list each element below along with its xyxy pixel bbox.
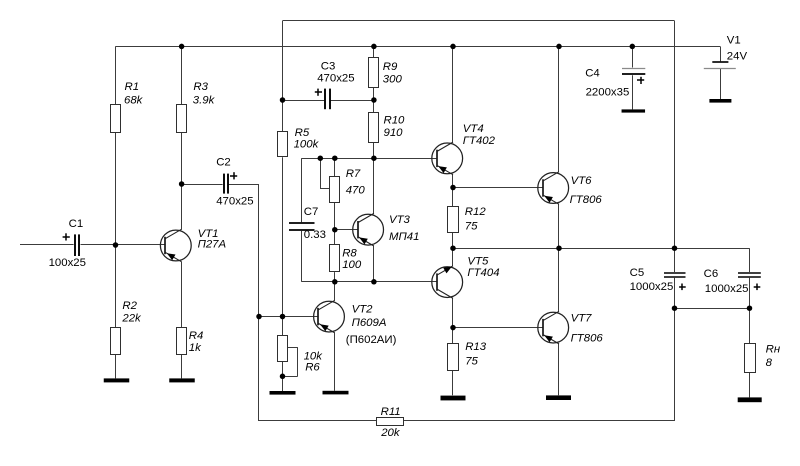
label VT2 P609A: [352, 303, 387, 329]
label VT3 MP41: [389, 214, 419, 243]
junction C5 bottom: [672, 305, 678, 311]
wire R12 bottom to output node: [452, 233, 454, 249]
wire C4 to ground: [632, 75, 634, 109]
polarity + C2: [230, 172, 237, 179]
label C1 100x25: [49, 218, 86, 269]
transistor VT2 P609A: [314, 282, 345, 391]
wire feedback loop left segment: [259, 420, 377, 422]
wire VT2 base wire down to R6: [282, 317, 284, 336]
ground under R6: [270, 391, 296, 395]
wire R6 wiper tap: [283, 347, 298, 376]
wire driver node rail C7-to-VT4 base: [302, 158, 437, 160]
wire C2 corner down to VT2 base node: [258, 184, 260, 317]
junction R8/VT2 collector: [332, 279, 338, 285]
wire R5 bottom to VT2 base wire: [282, 157, 284, 316]
label VT1 P27A: [198, 228, 227, 251]
wire C1 to VT1 base: [81, 244, 166, 246]
wire C7 bottom lead: [301, 231, 303, 282]
capacitor C1: [75, 234, 79, 256]
label R13 75: [465, 341, 487, 368]
wire rail to VT4 collector: [452, 46, 454, 142]
svg-text:(П602АИ): (П602АИ): [346, 334, 397, 346]
junction C3 node right: [371, 97, 377, 103]
svg-text:R2: R2: [122, 300, 137, 312]
svg-text:VT3: VT3: [389, 214, 411, 226]
label R11 20k: [380, 406, 401, 439]
label C7 0.33: [304, 206, 326, 241]
junction C2 node: [179, 181, 185, 187]
label R10 910: [384, 115, 406, 139]
resistor R5: [278, 132, 288, 157]
polarity + C5: [679, 284, 686, 291]
wire bootstrap top edge: [283, 20, 675, 22]
wire VT1 emitter to R4: [181, 262, 183, 327]
polarity + C1: [63, 233, 70, 240]
resistor R8: [330, 245, 340, 272]
junction input node: [113, 242, 119, 248]
battery V1 negative bar: [709, 99, 731, 103]
svg-text:C4: C4: [585, 67, 600, 79]
wire driver rail to R7: [334, 158, 336, 177]
junction R7 wiper top: [318, 155, 324, 161]
junction R10/VT3 collector: [371, 155, 377, 161]
junction C3 node left: [280, 97, 286, 103]
svg-text:75: 75: [465, 356, 478, 368]
svg-text:C3: C3: [321, 61, 336, 73]
wire C2 node to C2 left plate: [182, 184, 223, 186]
junction VT3 emitter: [371, 279, 377, 285]
svg-text:C2: C2: [216, 156, 231, 168]
wire C5 bottom to C6 bottom: [675, 308, 750, 310]
svg-text:1000x25: 1000x25: [705, 283, 749, 295]
wire feedback loop right segment: [404, 420, 675, 422]
wire VT3 emitter to emitter wire: [373, 246, 375, 282]
junction rail/VT6 collector: [556, 44, 562, 50]
svg-text:100k: 100k: [294, 139, 320, 151]
label VT6 GT806: [570, 175, 603, 206]
svg-text:C6: C6: [704, 268, 719, 280]
wire R4 bottom to ground: [181, 355, 183, 379]
junction node A VT4 emitter: [450, 185, 456, 191]
wire C5 to lower node: [674, 278, 676, 308]
wire input node down to R2: [115, 245, 117, 327]
svg-text:R10: R10: [384, 115, 406, 127]
polarity + C4: [637, 77, 644, 84]
junction output at C5: [672, 245, 678, 251]
wire lower node down to feedback loop: [674, 308, 676, 421]
wire C3 right plate to R9/R10 node: [331, 100, 374, 102]
resistor R2: [111, 328, 121, 355]
svg-text:8: 8: [766, 357, 773, 369]
wire C3 node to C3 left plate: [283, 100, 325, 102]
svg-text:VT7: VT7: [571, 312, 593, 324]
wire rail to C4: [632, 46, 634, 67]
svg-text:R4: R4: [189, 330, 204, 342]
svg-text:R1: R1: [125, 81, 140, 93]
junction VT2 base/feedback: [256, 314, 262, 320]
wire VT2 base node to VT2 base: [259, 316, 319, 318]
svg-text:C7: C7: [304, 206, 319, 218]
wire R10 bottom to driver node: [373, 143, 375, 159]
ground under R13: [441, 396, 466, 401]
svg-text:R13: R13: [465, 341, 487, 353]
wire R13 bottom to ground: [452, 370, 454, 395]
wire VT3 base node to VT3 base: [335, 229, 358, 231]
svg-text:300: 300: [383, 73, 403, 85]
wire input left stub: [20, 244, 74, 246]
label R2 22k: [121, 300, 142, 324]
label R12 75: [465, 206, 487, 232]
label C4 2200x35: [585, 67, 629, 98]
wire VT5 collector to node B: [452, 298, 454, 327]
junction output VT6/VT7: [556, 245, 562, 251]
wire rail to R9: [373, 46, 375, 57]
label VT4 GT402: [463, 123, 496, 147]
ground under R2: [104, 378, 130, 382]
resistor R11: [377, 418, 404, 426]
label Rn 8: [766, 343, 781, 369]
ground under Rn: [738, 397, 762, 402]
svg-text:0.33: 0.33: [304, 229, 326, 241]
svg-text:R12: R12: [465, 206, 487, 218]
junction output at R12: [450, 245, 456, 251]
svg-text:VT6: VT6: [571, 175, 593, 187]
wire VT6 emitter to output: [558, 204, 560, 248]
svg-text:R8: R8: [342, 247, 357, 259]
resistor R1: [111, 105, 121, 133]
label R8 100: [342, 247, 362, 270]
svg-text:2200x35: 2200x35: [586, 86, 630, 98]
wire R8 bottom to emitter wire: [334, 272, 336, 282]
label VT2 alt (P602AI): [346, 334, 397, 346]
wire output to VT7 collector: [558, 248, 560, 311]
wire output corner to C6: [749, 248, 751, 272]
wire C3 node to R10: [373, 100, 375, 113]
junction R7 top: [332, 155, 338, 161]
wire R9 bottom to C3 node: [373, 87, 375, 100]
polarity + C3: [315, 89, 322, 96]
svg-text:100: 100: [342, 259, 362, 271]
wire R6 wiper node to ground: [282, 376, 284, 391]
wire VT3 base node to R8: [334, 230, 336, 245]
wire rail to R3: [181, 46, 183, 104]
svg-text:П27А: П27А: [198, 238, 227, 250]
junction C6 bottom: [747, 305, 753, 311]
capacitor C6: [738, 273, 761, 277]
svg-text:ГТ404: ГТ404: [467, 267, 499, 279]
resistor R9: [369, 58, 379, 88]
wire C2 node to VT1 collector: [181, 184, 183, 230]
svg-text:R3: R3: [193, 81, 208, 93]
svg-text:R11: R11: [381, 406, 401, 418]
junction rail/C4: [630, 44, 636, 50]
resistor R6 trimmer: [278, 336, 288, 362]
svg-text:R6: R6: [305, 361, 320, 373]
label C6 1000x25: [704, 268, 749, 295]
wire Rn bottom to ground: [749, 373, 751, 398]
resistor R13: [448, 344, 459, 371]
wire VT7 emitter to ground: [558, 344, 560, 396]
svg-text:VT5: VT5: [467, 255, 489, 267]
svg-text:470x25: 470x25: [317, 73, 354, 85]
svg-text:ГТ402: ГТ402: [463, 135, 496, 147]
junction rail/R9: [371, 44, 377, 50]
svg-text:R9: R9: [383, 61, 398, 73]
transistor VT6 GT806: [538, 172, 569, 205]
ground under VT2: [323, 391, 349, 395]
battery V1: [704, 62, 736, 69]
wire bootstrap left drop to C3 node: [282, 21, 284, 100]
svg-text:МП41: МП41: [389, 231, 419, 243]
label VT5 GT404: [467, 255, 499, 279]
resistor R12: [448, 207, 459, 233]
label R3 3.9k: [193, 81, 216, 106]
wire C2 right plate to corner: [229, 184, 259, 186]
label R6 10k: [304, 350, 324, 373]
label C5 1000x25: [630, 267, 674, 293]
svg-text:75: 75: [465, 220, 478, 232]
ground under C4: [622, 109, 646, 112]
svg-text:1000x25: 1000x25: [630, 281, 674, 293]
label V1 24V: [727, 34, 748, 62]
junction R6 wiper: [280, 374, 286, 380]
svg-text:470: 470: [346, 185, 366, 197]
junction rail/VT4 collector: [450, 44, 456, 50]
transistor VT7 GT806: [538, 311, 569, 344]
resistor R4: [177, 328, 187, 355]
label R9 300: [383, 61, 403, 85]
svg-text:ГТ806: ГТ806: [570, 194, 603, 206]
svg-text:VT4: VT4: [463, 123, 484, 135]
wire node B to R13: [452, 328, 454, 344]
svg-text:100x25: 100x25: [49, 257, 86, 269]
label R4 1k: [189, 330, 204, 354]
svg-text:20k: 20k: [380, 427, 401, 439]
resistor R10: [369, 113, 379, 143]
svg-text:V1: V1: [727, 34, 741, 46]
wire C7 top lead: [301, 158, 303, 222]
svg-text:C5: C5: [630, 267, 645, 279]
wire R7 wiper tap: [320, 158, 329, 189]
wire output rail: [453, 248, 750, 250]
svg-text:VT2: VT2: [352, 303, 374, 315]
wire VT2 base node down to feedback loop: [258, 317, 260, 422]
wire C6 to lower node: [749, 278, 751, 308]
wire bootstrap right drop to output node: [674, 21, 676, 248]
wire V1 to ground: [720, 69, 722, 99]
wire C7 to R8 bottom wire: [302, 281, 335, 283]
resistor Rn load: [745, 344, 756, 373]
transistor VT3 MP41: [353, 213, 384, 246]
wire output node to VT5 emitter: [452, 248, 454, 266]
svg-text:ГТ806: ГТ806: [571, 332, 604, 344]
wire R8/VT3-emitter to VT5 base: [335, 281, 437, 283]
wire R7 bottom to VT3 base node: [334, 203, 336, 230]
transistor VT5 GT404: [432, 266, 463, 299]
svg-text:П609А: П609А: [352, 317, 387, 329]
wire +24V supply rail: [116, 46, 721, 48]
label C2 470x25: [216, 156, 253, 207]
junction VT3 base node: [332, 227, 338, 233]
label R1 68k: [124, 81, 144, 106]
wire node A to VT6 base: [453, 187, 543, 189]
wire R1 bottom to input node: [115, 132, 117, 246]
wire lower node to Rn: [749, 308, 751, 344]
svg-text:C1: C1: [69, 218, 84, 230]
polarity + C6: [754, 284, 761, 291]
transistor VT4 GT402: [432, 142, 463, 175]
ground under VT7: [546, 395, 571, 400]
svg-text:910: 910: [384, 127, 404, 139]
ground under R4: [169, 378, 195, 382]
capacitor C7: [289, 223, 315, 230]
svg-text:R7: R7: [346, 168, 361, 180]
svg-text:22k: 22k: [121, 313, 142, 325]
wire node B to VT7 base: [453, 327, 543, 329]
wire VT2 collector up to emitter wire: [334, 282, 336, 301]
wire node A to R12: [452, 188, 454, 207]
capacitor C5: [664, 273, 686, 277]
svg-text:R5: R5: [295, 127, 310, 139]
wire rail to VT6 collector: [558, 46, 560, 171]
svg-text:Rн: Rн: [766, 343, 781, 355]
label R7 470: [346, 168, 366, 197]
wire R3 bottom to C2 node: [181, 132, 183, 185]
wire R2 bottom to ground: [115, 355, 117, 379]
wire driver node to VT3 collector: [373, 158, 375, 214]
svg-text:1k: 1k: [189, 342, 202, 354]
junction rail/R3: [179, 44, 185, 50]
capacitor C3: [325, 89, 330, 110]
svg-text:68k: 68k: [124, 94, 144, 106]
svg-text:3.9k: 3.9k: [193, 94, 216, 106]
wire rail corner down to R1: [115, 46, 117, 104]
capacitor C4: [622, 69, 645, 75]
wire C3 node to R5: [282, 100, 284, 132]
junction node B VT5 collector: [450, 325, 456, 331]
junction R5/R6 chain at base wire: [280, 314, 286, 320]
resistor R7 trimmer: [330, 177, 340, 203]
wire rail corner to V1: [720, 46, 722, 61]
svg-text:470x25: 470x25: [216, 196, 253, 208]
capacitor C2: [224, 174, 228, 194]
transistor VT1 P27A: [160, 184, 191, 262]
wire VT4 emitter to node A: [452, 175, 454, 188]
label VT7 GT806: [571, 312, 604, 344]
wire R6 bottom to wiper node: [282, 362, 284, 377]
svg-text:24V: 24V: [727, 50, 748, 62]
label R5 100k: [294, 127, 320, 150]
label C3 470x25: [317, 61, 354, 85]
wire output node to C5: [674, 248, 676, 272]
resistor R3: [177, 105, 187, 133]
